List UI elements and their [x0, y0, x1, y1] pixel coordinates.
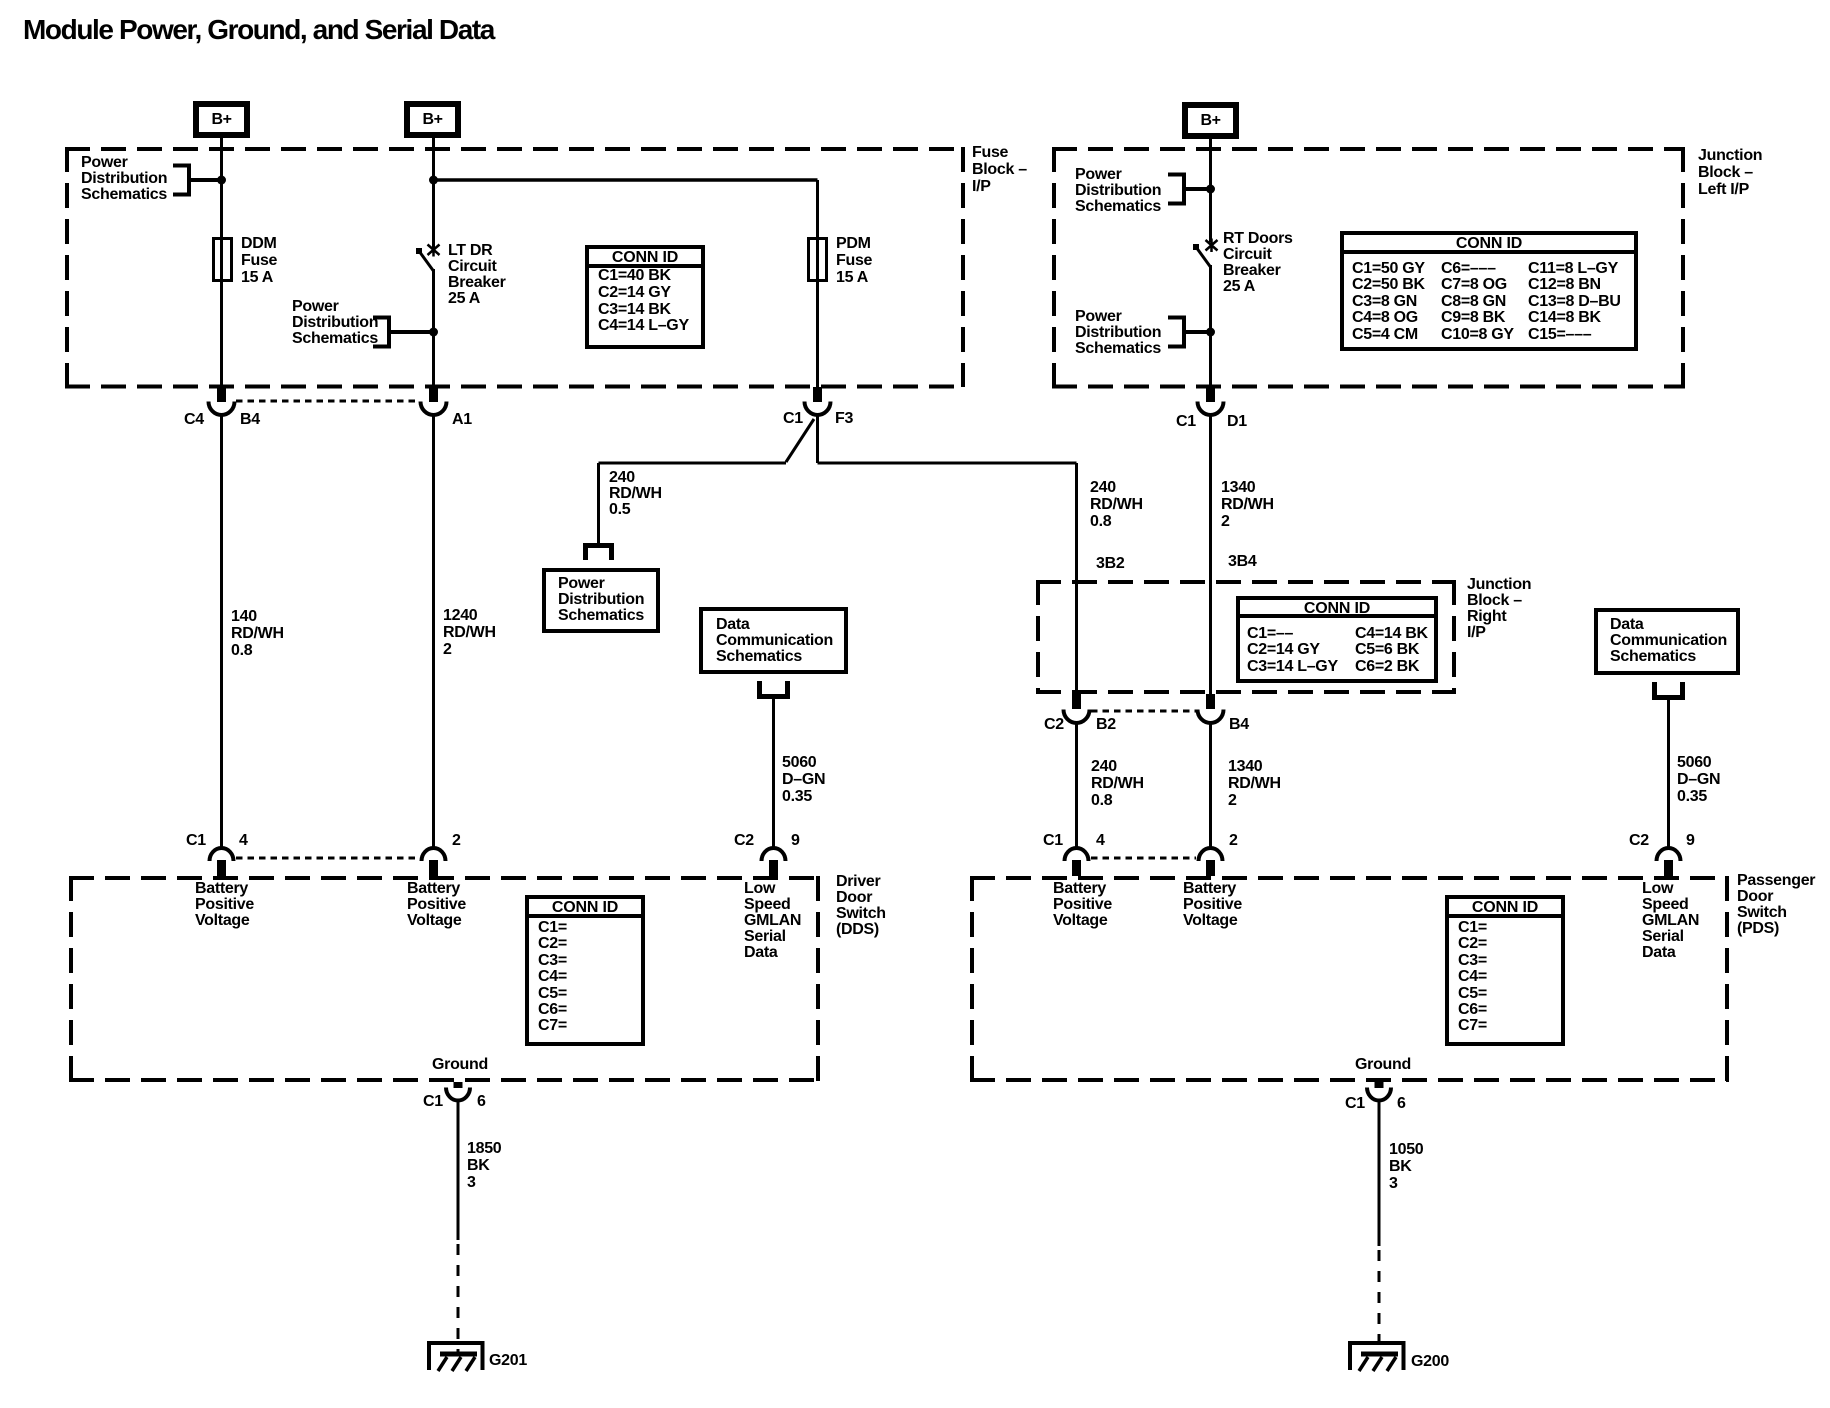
pin label F3	[835, 411, 853, 427]
reference bracket power distribution 3	[1168, 173, 1210, 206]
wire B+ LT DR feed	[432, 138, 435, 247]
wire label 240 RD/WH 0.8 lower	[1091, 758, 1144, 809]
net label G201	[489, 1353, 527, 1369]
wire PDM fuse drop	[816, 180, 819, 387]
connector C4/B4 at fuse block	[209, 387, 235, 415]
reference bracket power distribution 4	[1168, 316, 1210, 349]
box power distribution schematics	[544, 570, 658, 631]
wire label 1340 RD/WH 2 lower	[1228, 758, 1281, 809]
pin label 2 PDS	[1229, 833, 1238, 849]
conn ID table junction right column 1	[1247, 626, 1338, 676]
pin label C1 at F3	[783, 411, 803, 427]
label data communication schematics right	[1610, 617, 1727, 665]
wire 1050 BK ground	[1378, 1100, 1381, 1246]
fuse DDM 15A	[214, 239, 232, 281]
B+ terminal 3	[1182, 102, 1239, 139]
wire 240 RD/WH trunk from F3	[818, 414, 1077, 694]
reference bracket power distribution 2	[373, 316, 433, 349]
pin label 2 DDS	[452, 833, 461, 849]
label DDM fuse	[241, 235, 277, 286]
label fuse block I/P	[972, 144, 1027, 195]
pin label C1 DDS battery	[186, 833, 206, 849]
driver door switch DDS dashed box	[69, 876, 820, 1082]
off-page connector to power distribution	[586, 546, 612, 561]
circuit breaker RT doors 25A	[1193, 239, 1218, 388]
wire 5060 D-GN left	[772, 697, 775, 849]
passenger door switch PDS dashed box	[970, 876, 1729, 1082]
label RT doors circuit breaker	[1223, 231, 1293, 295]
label data communication schematics left	[716, 617, 833, 665]
pin label C2 at B2	[1044, 717, 1064, 733]
label battery positive voltage DDS 1	[195, 881, 254, 929]
off-page connector data communication left	[760, 681, 788, 697]
label power distribution schematics box	[558, 576, 644, 624]
wire label 5060 D-GN 0.35 right	[1677, 754, 1720, 805]
B+ terminal 1	[193, 101, 250, 138]
label power distribution schematics 1	[81, 155, 167, 203]
wire 1340 RD/WH circuit	[1209, 415, 1212, 694]
ground G200 symbol	[1350, 1343, 1404, 1371]
pin label C1 ground DDS	[423, 1094, 443, 1110]
label ground PDS	[1355, 1057, 1411, 1073]
label LT DR circuit breaker	[448, 243, 506, 307]
conn ID table junction right column 2	[1355, 626, 1428, 676]
connector C1/6 ground exit PDS	[1367, 1082, 1391, 1101]
box data communication schematics left	[701, 609, 846, 672]
wire label 5060 D-GN 0.35 left	[782, 754, 825, 805]
label battery positive voltage PDS 1	[1053, 881, 1112, 929]
connector C1/6 ground exit DDS	[446, 1082, 470, 1101]
connector 2 into DDS	[422, 848, 446, 876]
conn ID table PDS	[1445, 895, 1565, 1046]
wire 140 RD/WH circuit 1	[220, 415, 223, 849]
node junction dot RT doors lower	[1206, 328, 1215, 337]
connector C2/9 into PDS	[1657, 848, 1681, 876]
conn ID table DDS	[525, 895, 645, 1046]
B+ terminal 2	[404, 101, 461, 138]
pin label C1 ground PDS	[1345, 1096, 1365, 1112]
connector C2/B2 at junction right	[1064, 694, 1090, 723]
wire 1050 BK dashed continuation	[1378, 1250, 1381, 1352]
fuse PDM 15A	[809, 239, 827, 281]
wire label 1050 BK 3	[1389, 1141, 1423, 1192]
pin label D1	[1227, 414, 1247, 430]
wire bus to PDM fuse	[434, 178, 818, 182]
box data communication schematics right	[1596, 610, 1738, 673]
label PDM fuse	[836, 235, 872, 286]
wire 1850 BK ground	[457, 1100, 460, 1240]
wire 1850 BK dashed continuation	[457, 1244, 460, 1352]
dashed connector link C1/4 to 2 PDS	[1091, 857, 1196, 860]
pin label 9 PDS	[1686, 833, 1695, 849]
conn ID table junction block left	[1340, 231, 1638, 351]
wire 240 RD/WH lower	[1075, 723, 1078, 849]
pin label 6 ground PDS	[1397, 1096, 1406, 1112]
label driver door switch	[836, 874, 886, 938]
conn ID table fuse block	[585, 245, 705, 349]
label battery positive voltage DDS 2	[407, 881, 466, 929]
label battery positive voltage PDS 2	[1183, 881, 1242, 929]
conn ID table junction left column 2	[1441, 261, 1514, 344]
wire label 240 RD/WH 0.8 upper	[1090, 479, 1143, 530]
wire B+ DDM feed	[220, 138, 223, 387]
dashed connector link C4/B4 to A1	[236, 400, 420, 403]
label ground DDS	[432, 1057, 488, 1073]
connector A1 at fuse block	[421, 387, 447, 415]
reference bracket power distribution 1	[173, 164, 221, 197]
junction block left I/P dashed box	[1052, 147, 1685, 387]
wire label 140 RD/WH 0.8	[231, 608, 284, 659]
pin label A1	[452, 412, 472, 428]
off-page connector data communication right	[1655, 682, 1683, 698]
net label 3B4	[1228, 554, 1256, 570]
pin label C1 at D1	[1176, 414, 1196, 430]
node junction dot RT doors top	[1206, 185, 1215, 194]
pin label C2 DDS gmlan	[734, 833, 754, 849]
wire label 1240 RD/WH 2	[443, 607, 496, 658]
wire 5060 D-GN right	[1667, 698, 1670, 849]
connector C1/D1 at junction block	[1198, 387, 1224, 415]
net label 3B2	[1096, 556, 1124, 572]
pin label C1 PDS battery	[1043, 833, 1063, 849]
label junction block right I/P	[1467, 577, 1531, 641]
ground G201 symbol	[429, 1343, 483, 1371]
pin label 6 ground DDS	[477, 1094, 486, 1110]
label power distribution schematics 2	[292, 299, 378, 347]
pin label 4 PDS	[1096, 833, 1105, 849]
connector B4 at junction right	[1198, 694, 1224, 723]
label passenger door switch	[1737, 873, 1815, 937]
conn ID table junction block right	[1236, 596, 1438, 683]
pin label B4	[240, 412, 260, 428]
net label G200	[1411, 1354, 1449, 1370]
pin label 9 DDS	[791, 833, 800, 849]
node junction dot LT DR lower	[429, 328, 438, 337]
node junction dot DDM feed	[217, 176, 226, 185]
connector 2 into PDS	[1199, 848, 1223, 876]
wire label 1340 RD/WH 2 upper	[1221, 479, 1274, 530]
wire 1340 RD/WH lower	[1209, 723, 1212, 849]
node junction dot LT DR top	[429, 176, 438, 185]
label low speed GMLAN DDS	[744, 881, 801, 961]
pin label B2	[1096, 717, 1116, 733]
label power distribution schematics 3	[1075, 167, 1161, 215]
title	[23, 14, 494, 46]
wire 1240 RD/WH circuit 2	[432, 415, 435, 849]
connector C2/9 into DDS	[762, 848, 786, 876]
label junction block left I/P	[1698, 147, 1762, 198]
fuse block I/P dashed box	[65, 147, 965, 387]
wire label 1850 BK 3	[467, 1140, 501, 1191]
circuit breaker LT DR 25A	[416, 243, 440, 387]
pin label 4 DDS	[239, 833, 248, 849]
label low speed GMLAN PDS	[1642, 881, 1699, 961]
pin label B4 lower	[1229, 717, 1249, 733]
pin label C2 PDS gmlan	[1629, 833, 1649, 849]
pin label C4	[184, 412, 204, 428]
wire 240 RD/WH branch diagonal	[599, 419, 815, 543]
conn ID table junction left column 1	[1352, 261, 1425, 344]
label power distribution schematics 4	[1075, 309, 1161, 357]
wire label 240 RD/WH 0.5	[609, 470, 662, 518]
connector C1/4 into DDS	[210, 848, 234, 876]
junction block right I/P dashed box	[1036, 580, 1456, 694]
wire B+ RT doors feed	[1209, 139, 1212, 242]
connector C1/4 into PDS	[1065, 848, 1089, 876]
connector C1/F3 at fuse block	[805, 387, 831, 415]
dashed connector link B2 to B4	[1091, 710, 1197, 713]
dashed connector link C1/4 to 2	[236, 857, 419, 860]
conn ID table junction left column 3	[1528, 261, 1621, 344]
